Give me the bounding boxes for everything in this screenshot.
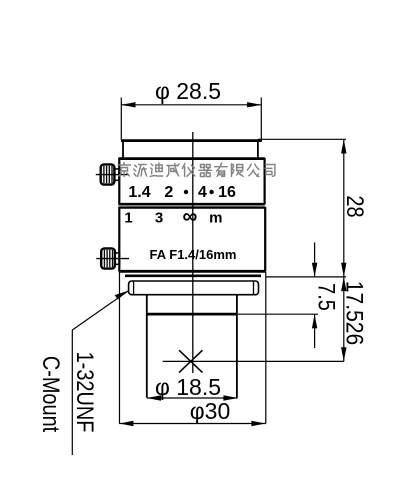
svg-text:28: 28 xyxy=(342,195,369,217)
flange reference extension line xyxy=(266,276,347,278)
svg-text:7.5: 7.5 xyxy=(313,283,340,311)
svg-text:FA F1.4/16mm: FA F1.4/16mm xyxy=(150,247,237,262)
dimension 17.526 (right) xyxy=(343,277,345,362)
svg-text:1.4: 1.4 xyxy=(128,184,150,201)
svg-text:m: m xyxy=(209,210,222,227)
dimension 7.5 (right) xyxy=(238,242,318,348)
svg-text:17.526: 17.526 xyxy=(341,281,368,346)
center line xyxy=(192,132,194,373)
dimension phi 18.5 xyxy=(147,397,238,399)
svg-text:C-Mount: C-Mount xyxy=(38,356,65,432)
focus scale 1 3 inf m xyxy=(124,205,222,228)
dimension phi 28.5 xyxy=(121,98,261,141)
thumb screw S1 (aperture lock) xyxy=(96,164,129,184)
watermark company name (fake CJK strokes) xyxy=(118,163,275,177)
dimension 28 (right) xyxy=(258,139,346,277)
svg-text:3: 3 xyxy=(155,210,163,227)
svg-text:1: 1 xyxy=(124,210,132,227)
aperture scale 1.4 2 . 4 . 16 xyxy=(128,184,236,201)
lens front rim xyxy=(121,140,262,158)
leader line 1-32UNF / C-Mount xyxy=(72,291,129,456)
thread barrel xyxy=(146,295,238,398)
thumb screw S2 (focus lock) xyxy=(96,248,129,268)
svg-text:1-32UNF: 1-32UNF xyxy=(72,352,99,433)
aperture ring body xyxy=(119,158,265,205)
svg-text:∞: ∞ xyxy=(183,205,198,228)
svg-text:4: 4 xyxy=(198,184,207,201)
image plane line with asterisk xyxy=(163,360,344,362)
focus ring body xyxy=(119,207,266,276)
C-mount flange ring xyxy=(129,281,259,295)
svg-text:2: 2 xyxy=(164,184,173,201)
svg-text:φ 28.5: φ 28.5 xyxy=(155,78,221,104)
dimension phi 30 xyxy=(119,272,266,424)
svg-text:φ30: φ30 xyxy=(190,398,231,424)
svg-text:φ 18.5: φ 18.5 xyxy=(155,374,221,400)
svg-text:16: 16 xyxy=(218,184,236,201)
